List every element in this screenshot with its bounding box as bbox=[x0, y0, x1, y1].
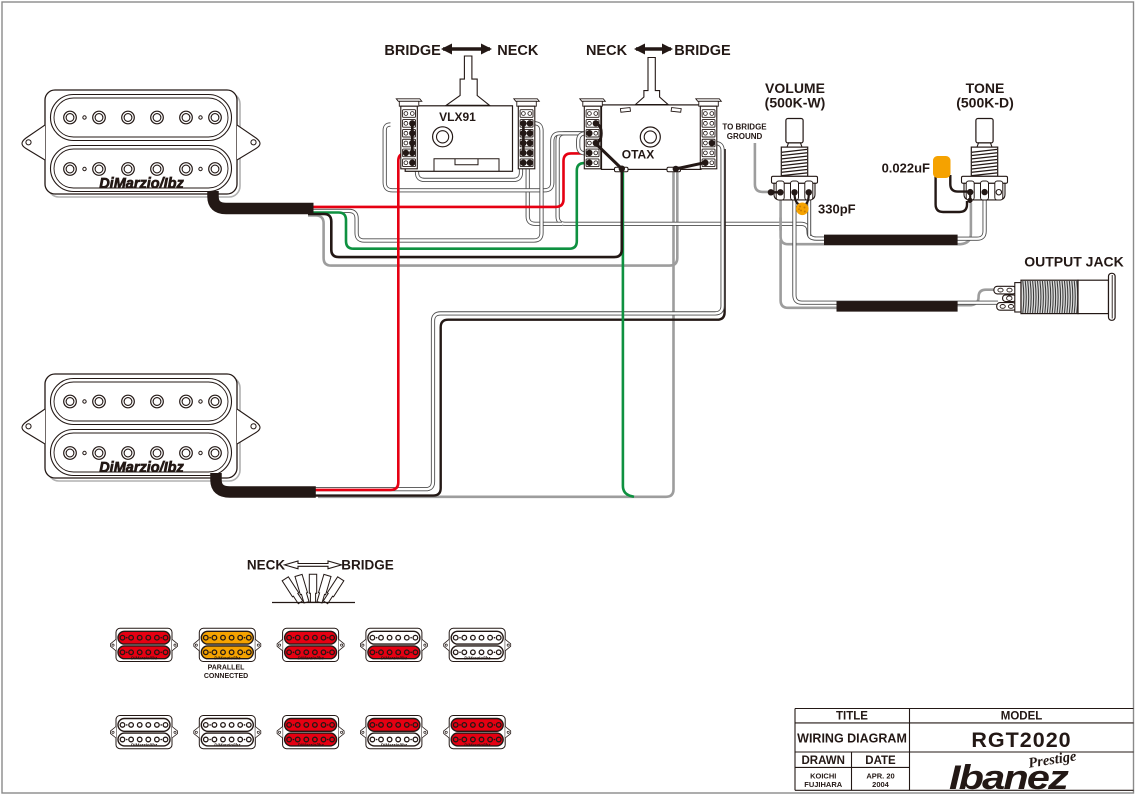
legend mini pickup position 3 bridge bbox=[277, 716, 344, 749]
wire to-bridge-ground lead to volume casing (bare/ground) bbox=[755, 143, 769, 192]
pickup neck (DiMarzio/Ibz) shadow bbox=[48, 93, 240, 197]
pickup bridge (DiMarzio/Ibz) body bbox=[22, 374, 260, 478]
legend label PARALLEL CONNECTED bbox=[204, 665, 248, 680]
label TO BRIDGE GROUND bbox=[722, 123, 767, 142]
switch terminal strip OTAX left bbox=[580, 99, 606, 169]
volume pot body bbox=[772, 176, 818, 200]
capacitor 0.022uF leg A bbox=[950, 175, 968, 192]
svg-text:PARALLEL: PARALLEL bbox=[208, 665, 246, 672]
svg-text:DRAWN: DRAWN bbox=[801, 755, 844, 767]
svg-text:(500K-W): (500K-W) bbox=[765, 95, 826, 111]
OTAX jumper row4-left to ground tab bbox=[595, 143, 622, 169]
output jack bracket bbox=[1015, 283, 1021, 312]
wire OTAX jumper row3-row5 (U loop) (white) bbox=[578, 133, 591, 153]
legend mini pickup position 5 neck bbox=[444, 628, 511, 661]
svg-text:(500K-D): (500K-D) bbox=[956, 95, 1014, 111]
pickup neck (DiMarzio/Ibz) body bbox=[22, 90, 260, 194]
svg-text:BRIDGE: BRIDGE bbox=[384, 43, 441, 59]
output jack lugs bbox=[994, 286, 1017, 310]
wire VLX91 row6 loop under switch (white) bbox=[417, 165, 521, 180]
svg-text:DiMarzio/Ibz: DiMarzio/Ibz bbox=[297, 743, 324, 748]
svg-text:VLX91: VLX91 bbox=[439, 110, 476, 124]
svg-text:NECK: NECK bbox=[497, 43, 539, 59]
tone pot threaded bushing bbox=[971, 147, 997, 176]
OTAX jumper tab2 to row6 bbox=[676, 163, 705, 169]
svg-text:GROUND: GROUND bbox=[727, 132, 763, 141]
wire VLX91 left row2 loop under switch to OTAX row3 (white) bbox=[385, 125, 592, 191]
OTAX bottom tab 2 bbox=[667, 167, 681, 172]
volume pot shaft bbox=[786, 119, 803, 148]
wire volume ground to output jack (under cable) (bare/ground) bbox=[781, 240, 950, 308]
wire bridge pickup red to VLX91 row5 bbox=[313, 153, 408, 490]
wire tone lug2 into shielded cable (white) bbox=[951, 197, 985, 239]
OTAX switch lever bbox=[636, 58, 669, 105]
svg-text:DiMarzio/Ibz: DiMarzio/Ibz bbox=[297, 655, 324, 660]
svg-text:DiMarzio/Ibz: DiMarzio/Ibz bbox=[214, 743, 241, 748]
shielded cable volume-to-jack bbox=[837, 301, 958, 312]
svg-text:TO BRIDGE: TO BRIDGE bbox=[722, 123, 767, 132]
svg-text:DiMarzio/Ibz: DiMarzio/Ibz bbox=[131, 743, 158, 748]
solder dots strip VLX91 right bbox=[520, 120, 533, 166]
legend label NECK-BRIDGE bbox=[247, 558, 394, 573]
legend mini pickup position 2 bridge bbox=[194, 716, 261, 749]
volume pot threaded bushing bbox=[781, 147, 807, 176]
svg-text:OUTPUT JACK: OUTPUT JACK bbox=[1024, 254, 1124, 270]
title block table bbox=[795, 709, 1134, 791]
output jack sleeve body bbox=[1078, 280, 1109, 313]
svg-text:DiMarzio/Ibz: DiMarzio/Ibz bbox=[99, 176, 184, 192]
svg-text:NECK: NECK bbox=[586, 43, 628, 59]
wire bridge pickup bare/shield to OTAX ground tab (bare/ground) bbox=[318, 172, 674, 497]
neck pickup shielded cable bbox=[213, 191, 314, 209]
wire neck pickup green to OTAX row6 bbox=[308, 163, 591, 249]
legend mini pickup position 4 bridge bbox=[360, 716, 427, 749]
label TONE (500K-D) bbox=[956, 80, 1014, 111]
capacitor 0.022uF body bbox=[933, 156, 951, 178]
label BRIDGE-NECK above VLX91 bbox=[384, 43, 538, 59]
legend mini pickup position 5 bridge bbox=[444, 716, 511, 749]
legend mini pickup position 1 bridge bbox=[111, 716, 178, 749]
wire neck pickup white to VLX91 right row2 (white) bbox=[308, 123, 542, 240]
svg-text:DiMarzio/Ibz: DiMarzio/Ibz bbox=[381, 655, 408, 660]
wire neck pickup bare/shield to OTAX ground tab (bare/ground) bbox=[308, 171, 677, 266]
svg-text:DiMarzio/Ibz: DiMarzio/Ibz bbox=[99, 460, 184, 476]
solder dots strip VLX91 left bbox=[403, 120, 416, 166]
svg-text:2004: 2004 bbox=[872, 780, 890, 789]
switch terminal strip VLX91 right bbox=[514, 99, 540, 169]
legend switch positions fan bbox=[272, 574, 355, 604]
label VOLUME (500K-W) bbox=[765, 80, 826, 111]
wire ground lead rising to jack sleeve lug (bare/ground) bbox=[952, 290, 995, 306]
legend mini pickup position 4 neck bbox=[360, 628, 427, 661]
switch terminal strip OTAX right bbox=[696, 99, 722, 169]
OTAX jumper row2-row4 bbox=[596, 123, 602, 143]
tone pot shaft bbox=[976, 119, 993, 148]
wire bridge pickup black (runs beside white) bbox=[313, 149, 725, 496]
volume solder dots and casing lug bbox=[768, 189, 812, 195]
wire OTAX row4 to bridge pickup white (white) bbox=[313, 143, 723, 489]
output jack flange bbox=[1109, 273, 1116, 320]
solder dots strip OTAX left bbox=[586, 120, 599, 166]
svg-text:CONNECTED: CONNECTED bbox=[204, 673, 248, 680]
wire volume ground to tone casing (bare/ground) bbox=[781, 197, 971, 244]
wire neck pickup red to OTAX row5 bbox=[306, 153, 582, 207]
wire neck pickup black to OTAX ground tab bbox=[308, 171, 622, 258]
title block texts bbox=[797, 711, 1042, 789]
svg-text:DiMarzio/Ibz: DiMarzio/Ibz bbox=[464, 743, 491, 748]
wire volume lug3 drop (white) bbox=[807, 197, 811, 236]
svg-text:NECK: NECK bbox=[247, 558, 286, 573]
wire volume ground vertical (over crossing) (bare/ground) bbox=[779, 218, 782, 231]
svg-text:OTAX: OTAX bbox=[622, 148, 654, 162]
svg-text:TITLE: TITLE bbox=[836, 711, 868, 723]
svg-text:MODEL: MODEL bbox=[1001, 711, 1043, 723]
output jack threaded barrel bbox=[1021, 280, 1078, 313]
svg-text:330pF: 330pF bbox=[818, 202, 856, 217]
svg-text:RGT2020: RGT2020 bbox=[971, 728, 1071, 752]
svg-text:BRIDGE: BRIDGE bbox=[341, 558, 394, 573]
svg-text:DiMarzio/Ibz: DiMarzio/Ibz bbox=[381, 743, 408, 748]
capacitor 330pF (disc) bbox=[796, 203, 809, 216]
wire OTAX ground tab green down to bridge pickup shield bbox=[623, 171, 634, 497]
svg-text:DiMarzio/Ibz: DiMarzio/Ibz bbox=[131, 655, 158, 660]
solder dots strip OTAX right bbox=[702, 140, 715, 166]
jumper link on strip VLX91 left bbox=[411, 123, 414, 153]
wire VLX91 output down to volume feed line (white) bbox=[528, 165, 562, 224]
jumper link on strip VLX91 right bbox=[522, 123, 525, 153]
svg-text:BRIDGE: BRIDGE bbox=[674, 43, 731, 59]
VLX91 switch lever bbox=[446, 56, 489, 105]
legend mini pickup position 2 neck bbox=[194, 628, 261, 661]
shielded cable volume-to-tone bbox=[824, 235, 958, 246]
switch terminal strip VLX91 left bbox=[396, 99, 422, 169]
label NECK-BRIDGE above OTAX bbox=[586, 43, 731, 59]
Ibanez Prestige logo bbox=[949, 748, 1078, 796]
legend mini pickup position 1 neck bbox=[111, 628, 178, 661]
svg-text:WIRING DIAGRAM: WIRING DIAGRAM bbox=[797, 732, 907, 746]
capacitor 0.022uF leg B bbox=[936, 175, 967, 212]
pickup bridge (DiMarzio/Ibz) shadow bbox=[48, 377, 240, 481]
legend mini pickup position 3 neck bbox=[277, 628, 344, 661]
svg-text:DiMarzio/Ibz: DiMarzio/Ibz bbox=[214, 655, 241, 660]
bridge pickup shielded cable bbox=[216, 473, 316, 492]
svg-text:0.022uF: 0.022uF bbox=[882, 161, 930, 176]
svg-text:DiMarzio/Ibz: DiMarzio/Ibz bbox=[464, 655, 491, 660]
wire OTAX output to volume lug3 / tone feed (white) bbox=[558, 133, 826, 238]
svg-text:DATE: DATE bbox=[865, 755, 896, 767]
capacitor 330pF legs bbox=[795, 193, 800, 205]
tone pot body bbox=[962, 176, 1008, 200]
OTAX bottom tab 1 bbox=[615, 167, 629, 172]
VLX91 switch body bbox=[405, 106, 512, 172]
OTAX switch body bbox=[602, 105, 702, 169]
svg-text:FUJIHARA: FUJIHARA bbox=[804, 780, 843, 789]
tone solder dots bbox=[967, 189, 988, 203]
wire volume lug2 hot to output jack tip lug (white) bbox=[794, 197, 998, 303]
